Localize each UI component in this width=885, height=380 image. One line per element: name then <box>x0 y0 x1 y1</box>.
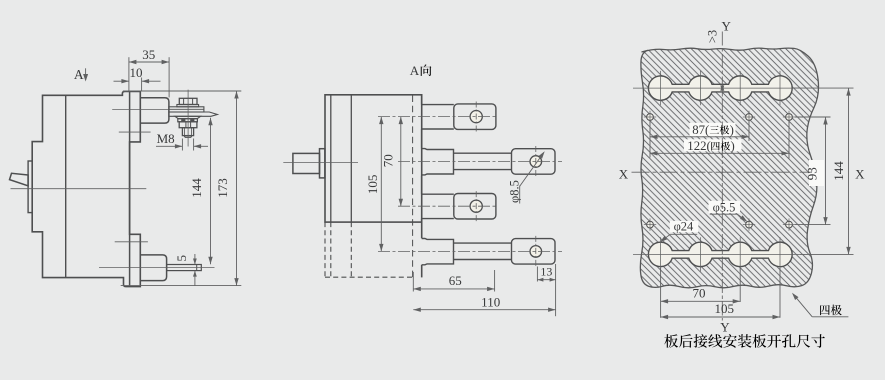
slot width dimension >3 <box>720 84 724 91</box>
top terminal housing <box>140 98 169 123</box>
svg-text:φ5.5: φ5.5 <box>713 200 736 214</box>
front cover edge <box>330 95 332 222</box>
bolt hex head <box>179 98 197 104</box>
svg-text:35: 35 <box>142 47 155 62</box>
svg-text:144: 144 <box>189 178 204 198</box>
text background masks <box>690 123 736 136</box>
terminal bar <box>454 152 512 154</box>
body cover seam line <box>65 95 67 277</box>
dimension 87 (three pole) <box>649 121 651 158</box>
dimension 105 (plate) <box>779 268 781 318</box>
svg-text:φ24: φ24 <box>674 220 694 234</box>
busbar plate <box>169 107 204 112</box>
svg-text:93: 93 <box>805 167 820 180</box>
svg-text:65: 65 <box>449 273 462 288</box>
dimension 13 <box>536 267 538 282</box>
threaded stud M8 <box>182 128 193 136</box>
connection blade (pointed) <box>169 112 218 116</box>
cover seam <box>350 95 352 222</box>
svg-text:M8: M8 <box>157 131 175 146</box>
svg-text:87(: 87( <box>692 123 709 137</box>
mounting plate (hatched, torn edges) <box>640 48 818 288</box>
terminal end block <box>512 149 556 175</box>
dimension 65 <box>412 272 414 292</box>
terminal end block <box>454 104 496 129</box>
screw hole <box>470 111 482 123</box>
Y axis <box>721 32 723 321</box>
clamp block <box>179 122 197 128</box>
shaft centerline <box>283 162 358 164</box>
svg-text:105: 105 <box>714 301 734 316</box>
dimension 35 <box>128 57 130 91</box>
svg-text:70: 70 <box>381 154 396 167</box>
terminal end block <box>454 194 496 220</box>
rear connection rod <box>167 265 202 271</box>
svg-text:φ8.5: φ8.5 <box>508 180 522 203</box>
X axis <box>632 171 813 173</box>
pole 1 centerline <box>378 116 497 118</box>
svg-text:>3: >3 <box>706 30 720 43</box>
dimension 93 <box>795 116 831 118</box>
dimension 10 <box>141 78 143 92</box>
terminal strip <box>422 104 454 106</box>
screw hole <box>530 156 542 168</box>
dimension phi 8.5 leader <box>520 153 544 187</box>
dimension 110 <box>555 264 557 316</box>
svg-text:10: 10 <box>130 65 143 80</box>
dimension 70 (pole spacing) <box>400 117 402 207</box>
svg-text:Y: Y <box>720 319 730 334</box>
svg-text:Y: Y <box>722 19 732 34</box>
terminal strip <box>422 193 454 195</box>
bolt centerline <box>187 90 189 147</box>
dimension 70 (plate) <box>660 268 662 318</box>
terminal root block <box>422 239 454 265</box>
bottom terminal housing <box>140 255 166 281</box>
terminal tab inner edge <box>129 92 131 287</box>
terminal root block <box>422 149 454 175</box>
svg-text:A: A <box>410 63 420 78</box>
svg-text:): ) <box>731 139 735 153</box>
terminal bar <box>454 242 512 244</box>
pole 2 centerline <box>398 161 562 163</box>
terminal end block <box>512 239 556 265</box>
breaker body outline (side view) <box>32 91 140 286</box>
screw hole <box>530 246 542 258</box>
svg-text:X: X <box>619 166 629 181</box>
lower washer <box>175 116 201 118</box>
main horizontal centerline <box>11 188 147 190</box>
svg-text:A: A <box>74 67 84 82</box>
phi24 terminal clearance slots, bottom row <box>648 242 792 266</box>
hole column centerlines <box>660 71 662 105</box>
toggle handle <box>10 173 29 186</box>
pole 4 centerline <box>378 250 562 252</box>
caption: rear-wiring mounting plate hole dimensions <box>664 334 678 348</box>
screw hole <box>470 200 482 212</box>
svg-text:122(: 122( <box>687 139 710 153</box>
hidden rear body (dashed) <box>324 222 326 277</box>
dimension 122 (four pole) <box>788 121 790 159</box>
mounting plate edge (top) <box>119 131 151 133</box>
body outline (view A) <box>325 95 422 222</box>
dimension 144 (left view) <box>210 118 212 264</box>
body right edge segments <box>421 95 423 105</box>
svg-text:X: X <box>855 166 865 181</box>
bottom terminal centerline <box>99 267 215 269</box>
top row centerline <box>633 87 800 89</box>
svg-text:144: 144 <box>831 161 846 181</box>
phi5.5 mounting holes <box>647 114 654 121</box>
svg-text:5: 5 <box>174 255 189 262</box>
svg-text:105: 105 <box>365 175 380 195</box>
four-pole label and leader <box>820 305 830 315</box>
svg-text:173: 173 <box>215 178 230 198</box>
bottom row centerline <box>633 253 800 255</box>
pole 3 centerline <box>398 205 497 207</box>
dimension 105 (pole spacing) <box>380 117 382 252</box>
top terminal centerline <box>112 109 169 111</box>
hex nut <box>178 119 198 122</box>
svg-text:): ) <box>730 123 734 137</box>
svg-text:110: 110 <box>481 294 500 309</box>
washer under head <box>177 105 199 107</box>
svg-text:13: 13 <box>540 265 552 279</box>
operating shaft <box>293 153 320 173</box>
handle bezel <box>28 161 32 213</box>
dimension 144 (plate) <box>794 87 854 89</box>
dimension 173 <box>123 90 241 92</box>
svg-text:70: 70 <box>693 285 706 300</box>
phi24 terminal clearance slots, top row <box>648 76 792 100</box>
shaft collar <box>320 149 325 178</box>
mounting plate edge (bottom) <box>115 241 148 243</box>
